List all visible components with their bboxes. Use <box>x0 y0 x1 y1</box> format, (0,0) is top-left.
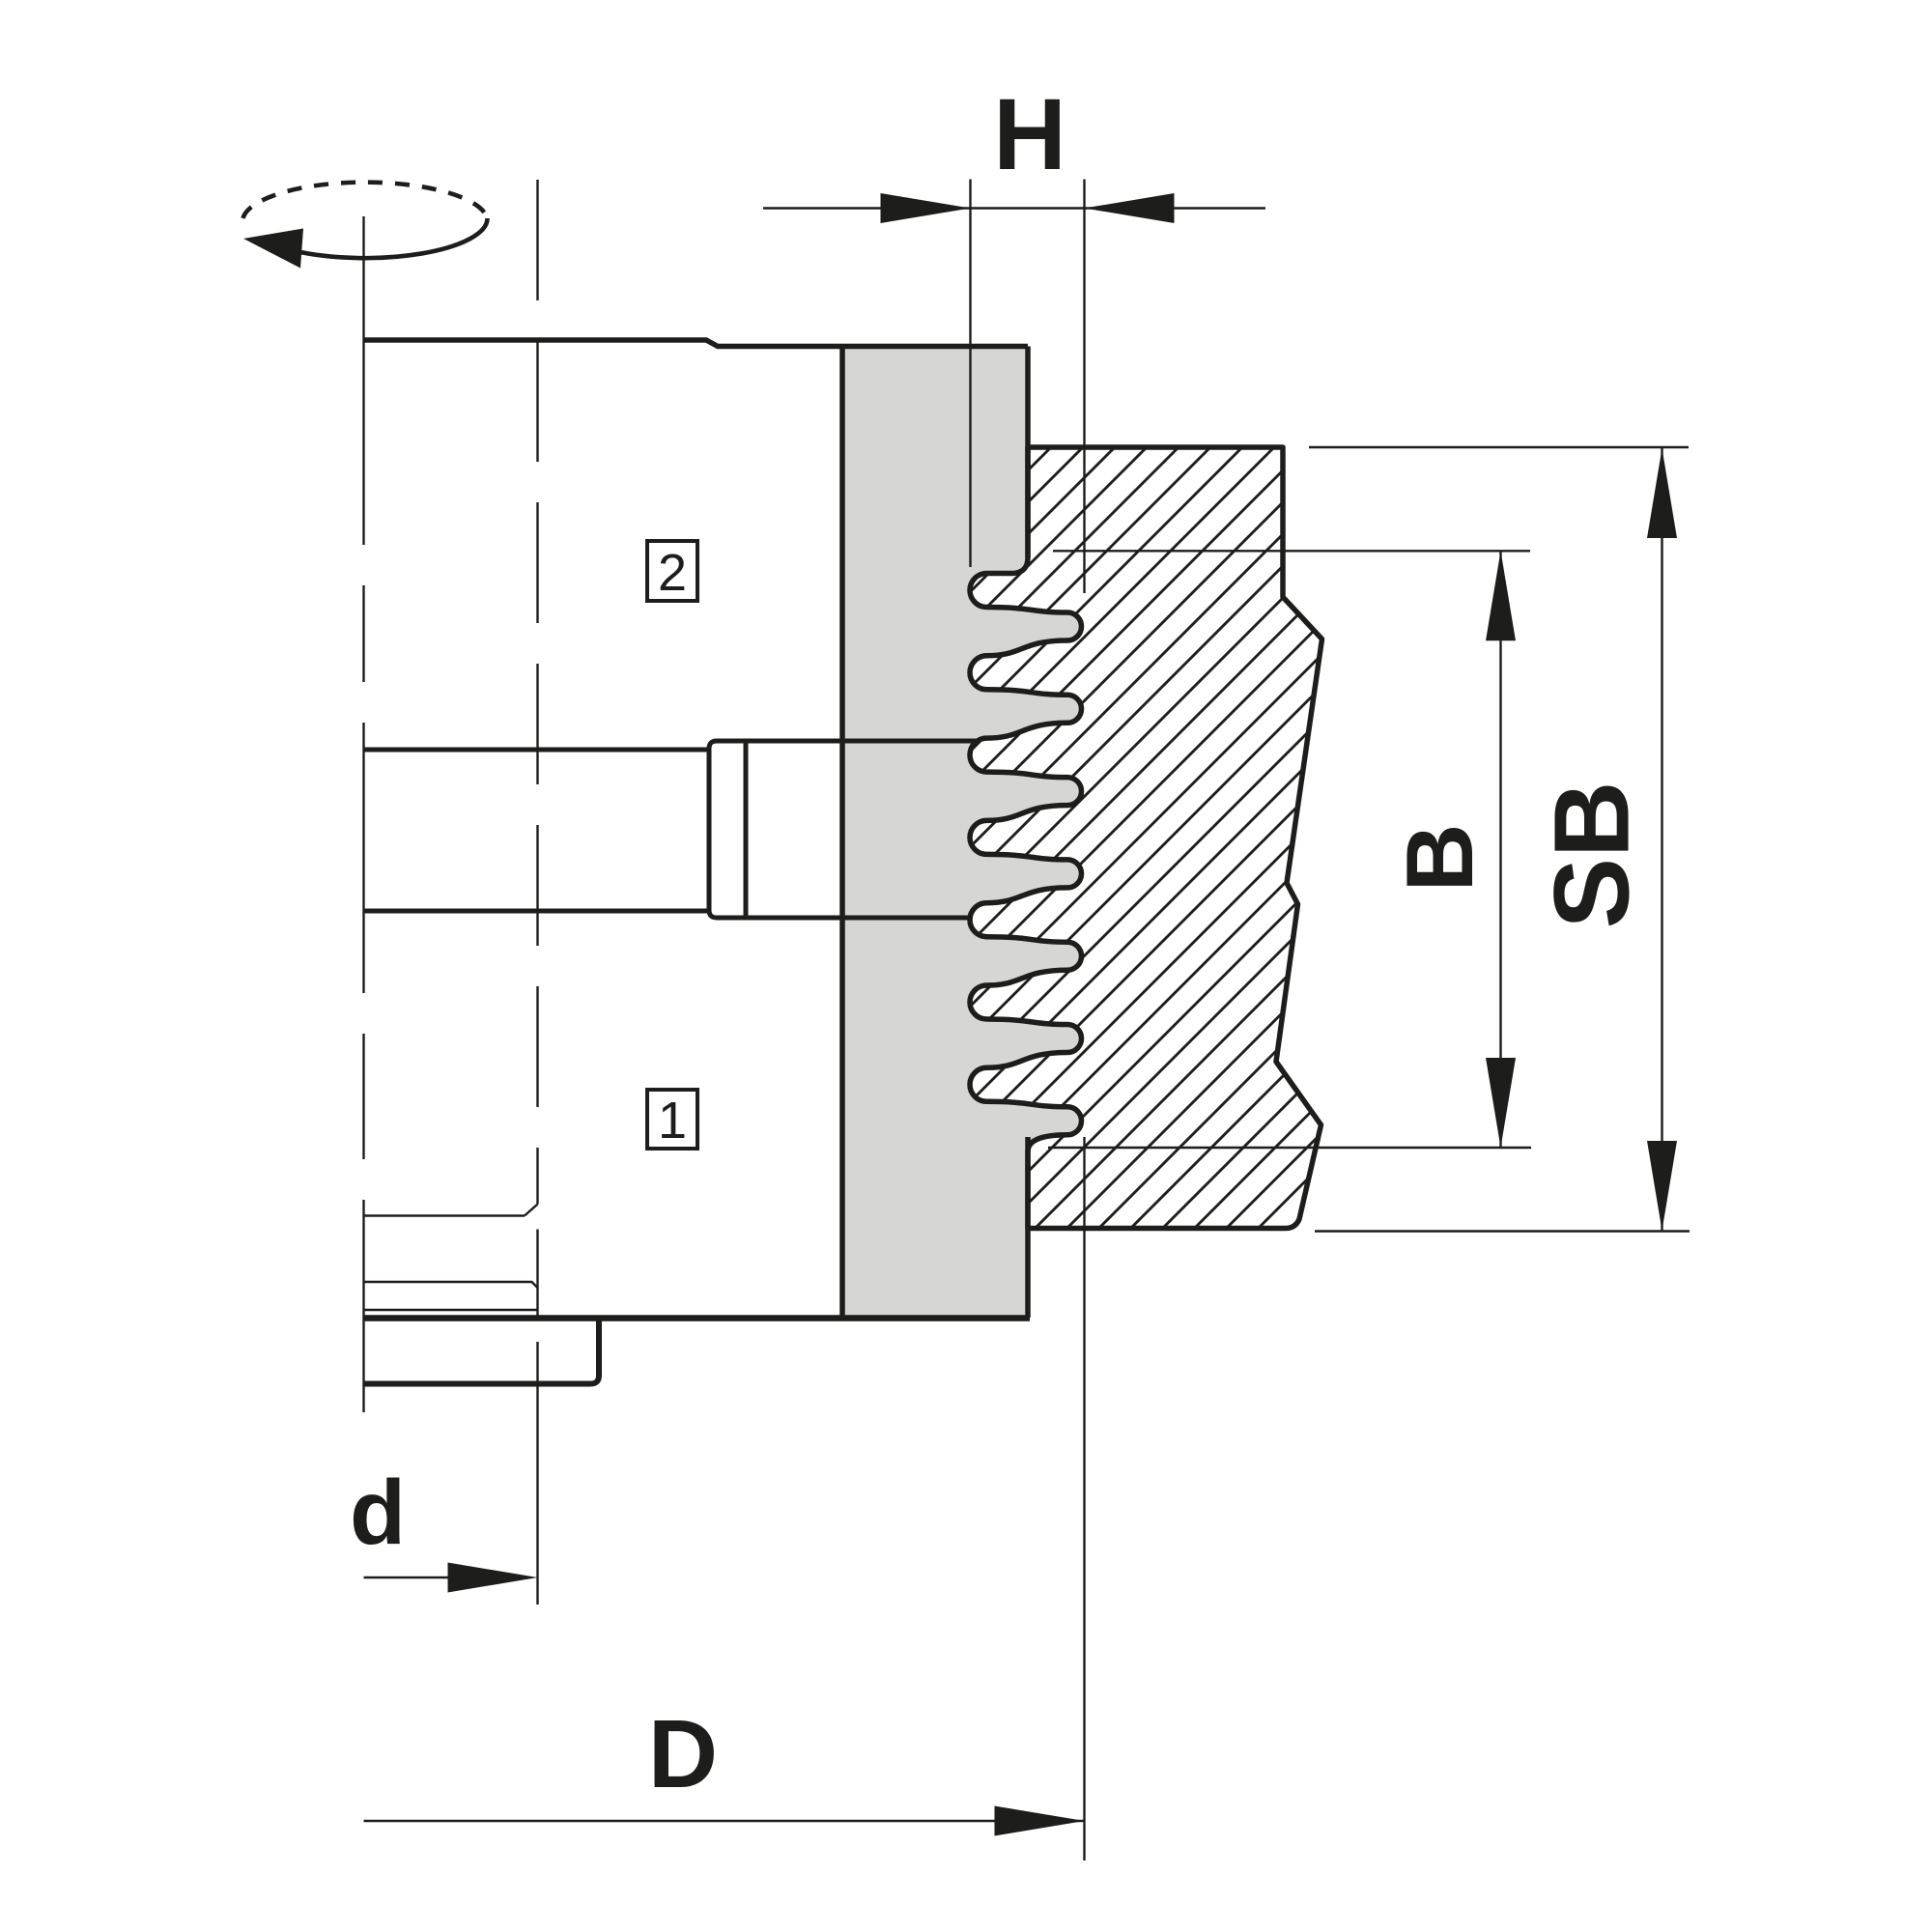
svg-text:SB: SB <box>1533 781 1652 929</box>
B arrow bottom (points down) <box>1486 1058 1516 1148</box>
body outline: top edge with jog <box>364 340 1029 347</box>
svg-text:H: H <box>993 78 1066 191</box>
D arrow (points right) <box>995 1806 1085 1836</box>
rotation symbol: dashed top arc <box>243 183 488 218</box>
SB extension bottom <box>1315 1230 1690 1232</box>
svg-text:2: 2 <box>658 544 687 602</box>
shaft lower line C <box>364 909 710 914</box>
body bottom thick edge <box>364 1315 1031 1321</box>
svg-text:B: B <box>1386 824 1492 893</box>
bore chamfer <box>525 1205 538 1216</box>
position box 2 <box>647 541 697 601</box>
centerline (axis) <box>362 216 364 1412</box>
svg-text:1: 1 <box>658 1092 687 1150</box>
SB arrow bottom (points down) <box>1647 1141 1677 1231</box>
rotation symbol: solid bottom-right arc <box>295 218 488 258</box>
H extension right <box>1083 180 1085 594</box>
workpiece (wood) hatched section incl. counter profile right edge <box>970 447 1322 1229</box>
shaft upper line A <box>364 748 710 753</box>
cutterhead gray knife band with profiled teeth <box>842 347 1082 1319</box>
H arrow left (points right) <box>881 193 971 223</box>
seat line B <box>717 739 976 744</box>
d arrow (points right) <box>448 1563 538 1593</box>
H dimension line <box>763 207 1265 209</box>
gray band left edge <box>839 347 845 1317</box>
H arrow right (points left) <box>1085 193 1175 223</box>
B extension top <box>1053 550 1530 552</box>
bore shoulder 1 <box>364 1214 526 1216</box>
B arrow top (points up) <box>1486 551 1516 640</box>
SB arrow top (points up) <box>1647 448 1677 538</box>
bore shoulder 2 with chamfer <box>364 1282 538 1288</box>
bottom flange <box>364 1321 600 1384</box>
B dimension line <box>1499 551 1501 1148</box>
collar right edge <box>744 744 749 916</box>
position box 1 <box>647 1090 697 1149</box>
dimension arrowheads <box>448 193 1678 1836</box>
bore edge lower segments <box>536 1230 538 1317</box>
bore hidden line <box>536 180 538 1205</box>
SB extension top <box>1309 446 1689 448</box>
B extension bottom <box>1048 1147 1531 1149</box>
seat line D <box>717 916 971 921</box>
gray band right edge below teeth <box>1025 1137 1031 1318</box>
SB dimension line <box>1661 447 1662 1232</box>
rotation symbol: arrowhead <box>243 229 303 269</box>
bore shoulder 3 <box>364 1309 538 1311</box>
gray band right edge above teeth <box>1025 347 1031 558</box>
D dimension line <box>364 1820 1085 1822</box>
d arrow shaft <box>364 1577 450 1578</box>
svg-text:D: D <box>648 1700 718 1808</box>
collar left edge with rounded corners <box>709 741 717 918</box>
svg-text:d: d <box>350 1462 406 1564</box>
H extension left <box>969 180 971 568</box>
D extension line (cutting circle) <box>1083 1137 1085 1861</box>
